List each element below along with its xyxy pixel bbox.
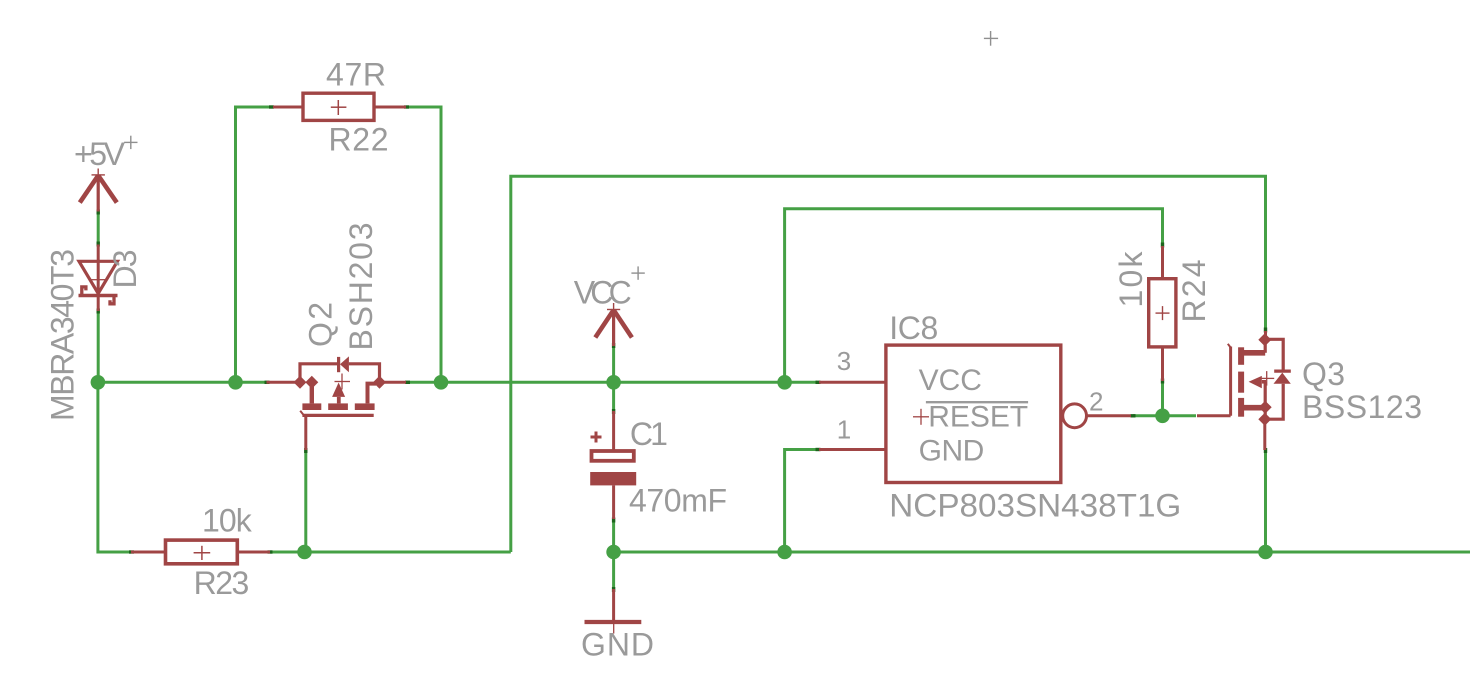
svg-text:C1: C1 <box>630 416 668 452</box>
svg-text:10k: 10k <box>202 503 253 539</box>
svg-text:Q3: Q3 <box>1302 356 1345 392</box>
svg-text:47R: 47R <box>326 56 386 92</box>
svg-text:D3: D3 <box>107 250 143 289</box>
svg-text:IC8: IC8 <box>889 310 938 346</box>
svg-text:2: 2 <box>1089 386 1103 416</box>
svg-text:R24: R24 <box>1176 260 1212 323</box>
svg-text:Q2: Q2 <box>303 302 339 347</box>
svg-text:10k: 10k <box>1113 251 1149 308</box>
svg-text:NCP803SN438T1G: NCP803SN438T1G <box>889 488 1181 524</box>
svg-text:GND: GND <box>581 626 654 662</box>
svg-text:RESET: RESET <box>928 401 1028 434</box>
svg-text:MBRA340T3: MBRA340T3 <box>45 249 81 421</box>
svg-text:VCC: VCC <box>919 364 982 397</box>
svg-text:BSS123: BSS123 <box>1302 389 1422 425</box>
svg-text:+5V: +5V <box>74 136 126 172</box>
svg-text:1: 1 <box>837 415 851 445</box>
svg-text:R22: R22 <box>329 122 389 158</box>
svg-text:470mF: 470mF <box>629 482 727 518</box>
svg-text:VCC: VCC <box>574 275 632 311</box>
svg-text:3: 3 <box>837 346 851 376</box>
svg-text:R23: R23 <box>194 565 250 601</box>
svg-text:GND: GND <box>919 435 985 468</box>
